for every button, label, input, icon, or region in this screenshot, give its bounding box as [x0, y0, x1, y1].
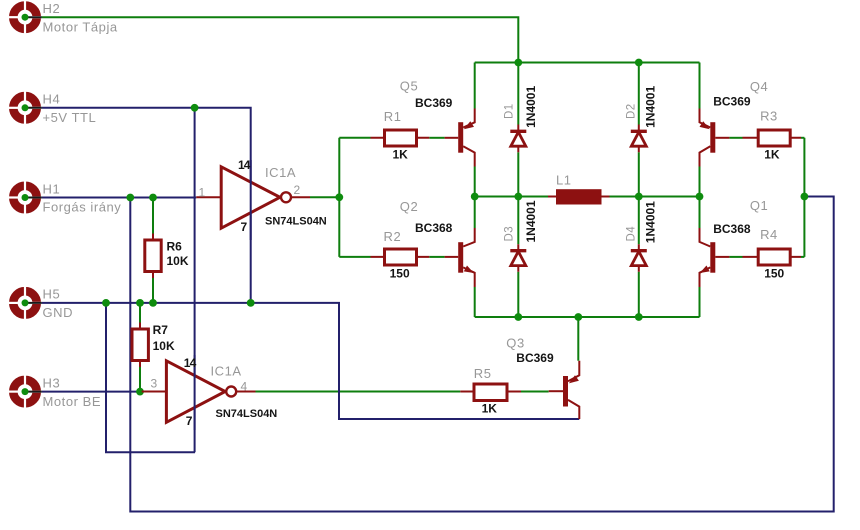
- junction node gate1 output / base drive column: [335, 193, 343, 201]
- wire R6 bottom stub to GND net: [152, 278, 154, 303]
- diode D1 (1N4001): [510, 125, 526, 153]
- svg-text:SN74LS04N: SN74LS04N: [265, 215, 327, 227]
- svg-text:4: 4: [241, 379, 248, 393]
- svg-text:H2: H2: [43, 1, 61, 16]
- svg-text:150: 150: [764, 267, 784, 281]
- svg-text:1K: 1K: [764, 147, 780, 161]
- connector H1: [8, 181, 42, 214]
- diode D4 (1N4001): [631, 244, 647, 271]
- svg-text:+5V TTL: +5V TTL: [43, 110, 97, 125]
- junction node H4/+5V vertical: [191, 104, 199, 112]
- wire R7 top stub to GND net: [139, 303, 141, 323]
- wire D4 column: [638, 197, 640, 318]
- svg-text:D2: D2: [626, 103, 638, 119]
- svg-text:14: 14: [238, 158, 251, 172]
- wire R3/R4 base-drive vertical column: [803, 138, 805, 257]
- wire R6 top stub to H1 net: [152, 198, 154, 234]
- junction node mid rail / Q5-Q2 collectors: [471, 193, 479, 201]
- svg-text:1N4001: 1N4001: [644, 201, 658, 243]
- svg-text:R7: R7: [153, 323, 169, 337]
- transistor Q5 (BC369 PNP): [445, 109, 475, 167]
- transistor Q1 (BC368 NPN): [700, 228, 730, 287]
- resistor R5: [460, 384, 521, 401]
- wire +5V vertical to gate2 pin 14: [194, 108, 196, 452]
- junction node mid rail / D2-D4: [635, 193, 643, 201]
- wire R1/R2 base-drive vertical column: [338, 138, 340, 257]
- svg-text:BC368: BC368: [415, 221, 453, 235]
- svg-text:GND: GND: [43, 305, 74, 320]
- resistor R2: [371, 249, 430, 265]
- svg-text:1N4001: 1N4001: [524, 200, 538, 242]
- resistor R3: [743, 130, 802, 146]
- svg-text:14: 14: [184, 356, 197, 370]
- wire R5 right to Q3 base: [521, 391, 549, 393]
- wire Q4 base to R3: [729, 137, 742, 139]
- connector H4: [8, 91, 42, 124]
- svg-text:1K: 1K: [393, 147, 409, 161]
- wire +5V power pin vertical overdrawn through gate2 (pins 14/7): [194, 355, 196, 430]
- wire R4 right to right base-drive column: [801, 256, 804, 258]
- svg-text:BC369: BC369: [415, 96, 453, 110]
- wire Q3 emitter to bottom rail: [577, 317, 579, 361]
- svg-text:R5: R5: [474, 366, 492, 381]
- svg-text:IC1A: IC1A: [211, 364, 242, 379]
- resistor R6: [145, 234, 161, 279]
- wire IC1A gate2 output to R5: [256, 391, 461, 393]
- svg-text:R2: R2: [384, 229, 402, 244]
- svg-text:R3: R3: [760, 109, 778, 124]
- wire H-bridge right edge upper (Q4 emitter branch): [699, 63, 701, 109]
- junction node GND/R7: [136, 299, 144, 307]
- svg-text:L1: L1: [556, 173, 572, 188]
- diode D3 (1N4001): [510, 244, 526, 271]
- wire D3 column: [517, 197, 519, 318]
- junction node top rail / H2 / D1: [514, 59, 522, 67]
- connector H5: [8, 286, 42, 319]
- svg-text:Motor Tápja: Motor Tápja: [43, 19, 118, 34]
- svg-text:D1: D1: [503, 103, 515, 119]
- resistor R4: [743, 249, 802, 265]
- resistor R7: [132, 323, 148, 368]
- junction node GND/pin7 loop: [102, 299, 110, 307]
- svg-text:10K: 10K: [153, 339, 175, 353]
- svg-text:D3: D3: [503, 226, 515, 242]
- resistor R1: [371, 130, 430, 146]
- wire net GND from H5 to Q3 collector: [42, 303, 580, 419]
- wire D1 column: [517, 63, 519, 197]
- svg-text:D4: D4: [626, 226, 638, 242]
- wire R7 bottom stub to H3 net: [139, 367, 141, 392]
- svg-text:1: 1: [199, 186, 206, 200]
- svg-text:R4: R4: [760, 227, 778, 242]
- wire D2 column: [638, 63, 640, 197]
- op-amp gate IC1A gate2 (inverter): [142, 361, 256, 423]
- svg-text:H1: H1: [43, 181, 61, 196]
- svg-text:BC369: BC369: [713, 95, 751, 109]
- wire R3 right to right base-drive column: [801, 137, 804, 139]
- wire Q1 base to R4: [729, 256, 742, 258]
- svg-text:1N4001: 1N4001: [524, 86, 538, 128]
- transistor Q3 (BC369 PNP): [549, 361, 580, 419]
- transistor Q4 (BC369 PNP): [700, 109, 730, 167]
- wire H-bridge mid rail right of L1: [610, 196, 700, 198]
- diode D2 (1N4001): [631, 125, 647, 153]
- wire H-bridge right edge bottom (Q1 emitter branch): [699, 287, 701, 317]
- svg-text:150: 150: [390, 267, 410, 281]
- junction node H3/R7: [136, 388, 144, 396]
- wire +5V/GND power pin vertical overdrawn through gate1 (pins 14/7): [250, 160, 252, 240]
- wire R2 right to Q2 base: [429, 256, 444, 258]
- junction node bottom rail / D3: [514, 313, 522, 321]
- svg-text:R1: R1: [384, 109, 402, 124]
- inductor L1 (motor load): [548, 189, 610, 204]
- svg-text:7: 7: [241, 220, 248, 234]
- wire H-bridge top rail: [475, 62, 700, 64]
- junction node bottom rail / D4: [635, 313, 643, 321]
- svg-text:Q1: Q1: [750, 198, 768, 213]
- svg-text:H4: H4: [43, 92, 61, 107]
- wire H-bridge bottom rail: [475, 316, 700, 318]
- svg-text:Q4: Q4: [750, 79, 768, 94]
- svg-text:Q2: Q2: [400, 199, 418, 214]
- svg-text:7: 7: [186, 414, 193, 428]
- junction node GND/R6: [149, 299, 157, 307]
- junction node mid rail / D1-D3: [514, 193, 522, 201]
- wire net +5V-TTL from H4 to inverter power pins: [42, 108, 251, 303]
- wire net FORGAS-IRANY from H1 to gate1 input: [42, 197, 197, 199]
- svg-text:BC368: BC368: [713, 222, 751, 236]
- junction node H1/R6: [149, 194, 157, 202]
- svg-text:Motor BE: Motor BE: [43, 394, 102, 409]
- svg-text:H5: H5: [43, 287, 61, 302]
- svg-text:BC369: BC369: [516, 351, 554, 365]
- junction node H1/bottom loop: [126, 194, 134, 202]
- wire R1 right to Q5 base: [429, 137, 444, 139]
- junction node base drive column / direction net: [801, 193, 809, 201]
- transistor Q2 (BC368 NPN): [445, 228, 475, 287]
- junction node bottom rail / Q3 emitter: [574, 313, 582, 321]
- wire H-bridge right edge middle (Q4 collector / Q1 collector): [699, 167, 701, 229]
- svg-text:10K: 10K: [167, 254, 189, 268]
- svg-text:1K: 1K: [482, 402, 498, 416]
- junction node mid rail / Q4-Q1 collectors: [696, 193, 704, 201]
- connector H3: [8, 375, 42, 408]
- svg-text:R6: R6: [167, 239, 183, 253]
- wire FORGAS-IRANY down to bottom loop: [130, 197, 833, 512]
- svg-text:IC1A: IC1A: [265, 165, 296, 180]
- svg-text:Forgás irány: Forgás irány: [43, 200, 122, 215]
- svg-text:3: 3: [151, 377, 158, 391]
- svg-text:2: 2: [294, 183, 301, 197]
- svg-text:H3: H3: [43, 375, 61, 390]
- svg-text:Q5: Q5: [400, 78, 418, 93]
- junction node GND/gate1 pin7: [247, 299, 255, 307]
- junction node top rail / D2: [635, 59, 643, 67]
- wire net MOTOR-BE from H3 to gate2 input: [42, 391, 142, 393]
- connector H2: [8, 1, 42, 34]
- svg-text:1N4001: 1N4001: [644, 86, 658, 128]
- wire to R1 left: [339, 137, 370, 139]
- op-amp gate IC1A gate1 (inverter): [196, 167, 310, 228]
- wire H-bridge left edge lower (Q5 collector to mid rail to Q2 collector): [474, 167, 476, 229]
- svg-text:SN74LS04N: SN74LS04N: [216, 408, 278, 420]
- wire GND stub to gate2 pin 7: [106, 303, 195, 452]
- wire H-bridge mid rail left of L1: [475, 196, 548, 198]
- wire H-bridge left edge upper (Q5 emitter branch): [474, 63, 476, 109]
- svg-text:Q3: Q3: [506, 335, 524, 350]
- wire net MOTOR-TAPJA from H2 to H-bridge top rail: [42, 17, 519, 62]
- wire H-bridge left edge bottom (Q2 emitter branch): [474, 287, 476, 317]
- wire to R2 left: [339, 256, 370, 258]
- wire IC1A gate1 output to R1/R2 junction column: [310, 196, 339, 198]
